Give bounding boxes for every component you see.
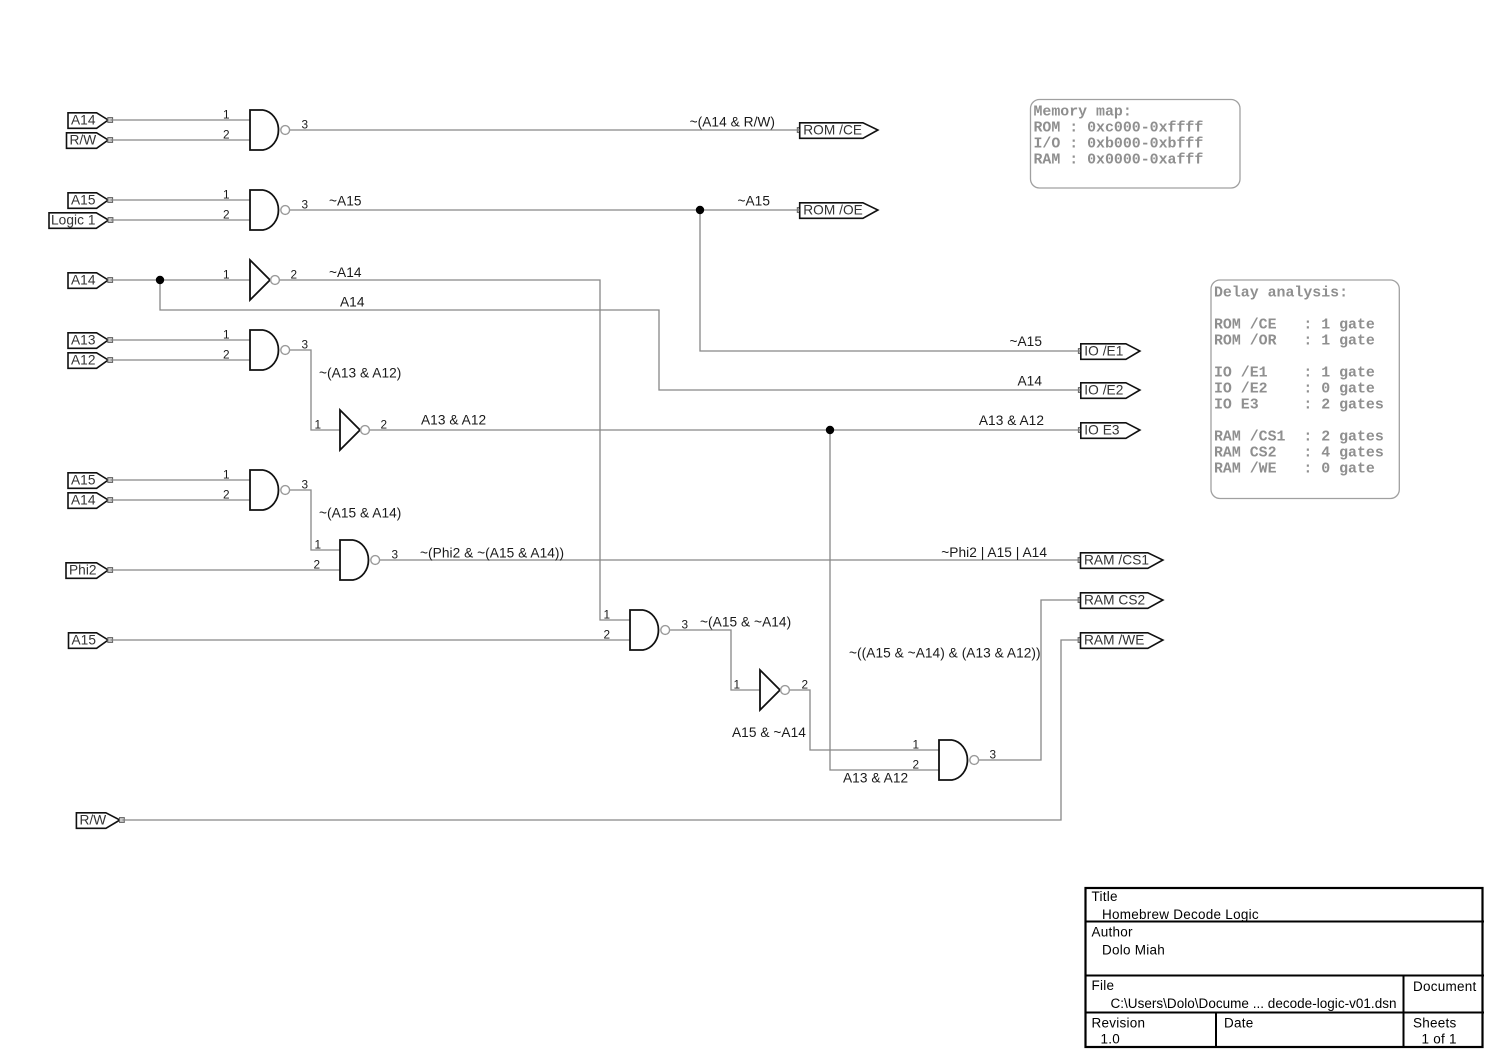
note box memory map: [1031, 100, 1241, 189]
input port A14 (inverter row): [68, 273, 113, 289]
svg-text:RAM : 0x0000-0xafff: RAM : 0x0000-0xafff: [1034, 153, 1204, 169]
svg-text:Author: Author: [1092, 925, 1134, 940]
svg-text:2: 2: [223, 128, 230, 142]
svg-text:A15 & ~A14: A15 & ~A14: [732, 725, 806, 740]
svg-text:RAM /CS1: RAM /CS1: [1084, 553, 1149, 568]
wire A14 to U6 pin 2: [111, 499, 250, 501]
svg-text:RAM /WE: RAM /WE: [1084, 633, 1144, 648]
svg-text:IO /E2 : 0 gate: IO /E2 : 0 gate: [1214, 382, 1375, 398]
svg-text:~(Phi2 & ~(A15 & A14)): ~(Phi2 & ~(A15 & A14)): [420, 546, 564, 561]
svg-text:1: 1: [223, 328, 230, 342]
svg-text:~(A15 & A14): ~(A15 & A14): [319, 506, 401, 521]
svg-text:2: 2: [913, 758, 920, 772]
node junction A13 & A12: [826, 426, 834, 434]
svg-text:1: 1: [913, 738, 920, 752]
svg-text:Document: Document: [1413, 979, 1477, 994]
svg-text:2: 2: [223, 348, 230, 362]
svg-text:R/W: R/W: [70, 133, 97, 148]
svg-text:~A15: ~A15: [1009, 334, 1042, 349]
svg-text:2: 2: [604, 628, 611, 642]
svg-text:1: 1: [223, 188, 230, 202]
svg-text:3: 3: [302, 198, 309, 212]
svg-text:RAM /CS1 : 2 gates: RAM /CS1 : 2 gates: [1214, 430, 1384, 446]
svg-text:~(A13 & A12): ~(A13 & A12): [319, 366, 401, 381]
inverter U5: [340, 410, 369, 450]
svg-text:A13 & A12: A13 & A12: [979, 413, 1044, 428]
svg-text:2: 2: [314, 558, 321, 572]
svg-text:1: 1: [223, 468, 230, 482]
svg-text:1: 1: [734, 678, 741, 692]
wire U8 pin 3 to U9 input (net ~(A15 & ~A14)): [670, 630, 760, 690]
nand gate U7: [340, 540, 380, 580]
wire A15 to U6 pin 1: [111, 479, 250, 481]
svg-text:Dolo Miah: Dolo Miah: [1102, 943, 1165, 958]
input port A15 (A15&A14 row): [68, 473, 113, 489]
svg-text:3: 3: [302, 118, 309, 132]
svg-text:File: File: [1092, 978, 1115, 993]
input port A13: [68, 333, 113, 349]
wire A13 & A12 branch to U10 pin 2: [830, 430, 939, 770]
wire Logic 1 to U2 pin 2: [111, 219, 250, 221]
svg-text:A15: A15: [72, 633, 97, 648]
svg-text:Sheets: Sheets: [1413, 1016, 1457, 1031]
output port RAM /WE: [1078, 633, 1163, 649]
svg-text:2: 2: [223, 208, 230, 222]
node junction ~A15: [696, 206, 704, 214]
svg-text:A13 & A12: A13 & A12: [843, 771, 908, 786]
wire A12 to U4 pin 2: [111, 359, 250, 361]
input port A12: [68, 353, 113, 369]
svg-text:ROM /OE: ROM /OE: [803, 203, 863, 218]
wire U5 output A13 & A12 to IO E3: [369, 429, 1080, 431]
note box delay analysis: [1211, 280, 1399, 499]
output port IO E3: [1078, 423, 1140, 439]
svg-text:R/W: R/W: [80, 813, 107, 828]
svg-text:A14: A14: [1017, 374, 1042, 389]
svg-text:2: 2: [802, 678, 809, 692]
svg-text:Revision: Revision: [1092, 1016, 1146, 1031]
svg-text:1: 1: [315, 418, 322, 432]
wire A13 to U4 pin 1: [111, 339, 250, 341]
svg-text:Delay analysis:: Delay analysis:: [1214, 286, 1348, 302]
svg-text:Logic 1: Logic 1: [51, 213, 96, 228]
svg-text:3: 3: [302, 338, 309, 352]
title block: [1085, 888, 1485, 1047]
wire U4 pin 3 to U5 input (net ~(A13 & A12)): [290, 350, 340, 430]
output port RAM /CS1: [1078, 553, 1163, 569]
input port Logic 1: [49, 213, 113, 229]
svg-text:Date: Date: [1224, 1016, 1254, 1031]
svg-text:IO /E1: IO /E1: [1084, 344, 1123, 359]
svg-text:A15: A15: [71, 473, 96, 488]
input port A15: [68, 193, 113, 209]
output port RAM CS2: [1078, 593, 1163, 609]
wire U9 output A15 & ~A14 to U10 pin 1: [790, 690, 939, 750]
svg-text:3: 3: [682, 618, 689, 632]
svg-text:A15: A15: [71, 193, 96, 208]
wire U3 output ~A14 to U8 pin 1: [280, 280, 630, 620]
svg-text:IO E3: IO E3: [1084, 423, 1120, 438]
svg-text:Phi2: Phi2: [69, 563, 97, 578]
output port ROM /CE: [797, 123, 878, 139]
nand gate U1: [250, 110, 290, 150]
svg-text:A14: A14: [340, 295, 365, 310]
svg-text:~(A14 & R/W): ~(A14 & R/W): [690, 115, 775, 130]
svg-text:A14: A14: [71, 493, 96, 508]
svg-text:IO E3 : 2 gates: IO E3 : 2 gates: [1214, 398, 1384, 414]
svg-text:RAM /WE : 0 gate: RAM /WE : 0 gate: [1214, 462, 1375, 478]
inverter U9: [760, 670, 789, 710]
svg-text:2: 2: [291, 268, 298, 282]
svg-text:2: 2: [223, 488, 230, 502]
wire Phi2 to U7 pin 2: [111, 569, 340, 571]
nand gate U8: [630, 610, 670, 650]
input port R/W (bottom): [76, 813, 124, 829]
wire A15 to U2 pin 1: [111, 199, 250, 201]
wire U10 pin 3 to RAM CS2: [979, 600, 1080, 760]
svg-text:~(A15 & ~A14): ~(A15 & ~A14): [700, 615, 791, 630]
wire U2 pin 3 to ROM /OE (net ~A15): [290, 209, 800, 211]
nand gate U2: [250, 190, 290, 230]
input port A14 (net A14/R/W row): [68, 113, 113, 129]
svg-text:~A14: ~A14: [329, 265, 362, 280]
inverter U3: [250, 260, 279, 300]
node junction A14: [156, 276, 164, 284]
nand gate U6: [250, 470, 290, 510]
wire R/W to U1 pin 2: [111, 139, 250, 141]
svg-text:1: 1: [223, 108, 230, 122]
svg-text:ROM /CE : 1 gate: ROM /CE : 1 gate: [1214, 318, 1375, 334]
wire U1 pin 3 to ROM /CE: [290, 129, 800, 131]
svg-text:3: 3: [392, 548, 399, 562]
svg-text:ROM : 0xc000-0xffff: ROM : 0xc000-0xffff: [1034, 121, 1204, 137]
svg-text:ROM /CE: ROM /CE: [803, 123, 862, 138]
nand gate U10: [939, 740, 979, 780]
input port Phi2: [66, 563, 113, 579]
wire A14 branch to IO /E2: [160, 280, 1080, 390]
svg-text:1: 1: [223, 268, 230, 282]
svg-text:A14: A14: [71, 113, 96, 128]
svg-text:RAM CS2: RAM CS2: [1084, 593, 1145, 608]
svg-text:~A15: ~A15: [329, 194, 362, 209]
svg-text:I/O : 0xb000-0xbfff: I/O : 0xb000-0xbfff: [1034, 137, 1204, 153]
svg-text:1.0: 1.0: [1101, 1032, 1121, 1047]
svg-text:2: 2: [381, 418, 388, 432]
input port A15 (bottom row): [69, 633, 113, 649]
svg-text:Homebrew Decode Logic: Homebrew Decode Logic: [1102, 907, 1259, 922]
output port IO /E1: [1078, 344, 1140, 360]
wire A15 to U8 pin 2: [111, 639, 630, 641]
svg-text:A14: A14: [71, 273, 96, 288]
svg-text:3: 3: [990, 748, 997, 762]
wire U7 pin 3 to RAM /CS1: [380, 559, 1080, 561]
svg-text:1 of 1: 1 of 1: [1422, 1032, 1457, 1047]
svg-text:ROM /OR : 1 gate: ROM /OR : 1 gate: [1214, 334, 1375, 350]
wire A14 to U3 input: [111, 279, 250, 281]
wire R/W to RAM /WE: [123, 640, 1081, 820]
svg-text:~((A15 & ~A14) & (A13 & A12)): ~((A15 & ~A14) & (A13 & A12)): [849, 646, 1041, 661]
svg-text:1: 1: [604, 608, 611, 622]
svg-text:~Phi2 | A15 | A14: ~Phi2 | A15 | A14: [941, 545, 1047, 560]
nand gate U4: [250, 330, 290, 370]
output port ROM /OE: [797, 203, 878, 219]
svg-text:A13: A13: [71, 333, 96, 348]
svg-text:A13 & A12: A13 & A12: [421, 413, 486, 428]
wire A14 to U1 pin 1: [111, 119, 250, 121]
svg-text:Title: Title: [1092, 889, 1118, 904]
svg-text:IO /E1 : 1 gate: IO /E1 : 1 gate: [1214, 366, 1375, 382]
input port R/W: [67, 133, 113, 149]
svg-text:1: 1: [315, 538, 322, 552]
wire U6 pin 3 to U7 pin 1 (net ~(A15 & A14)): [290, 490, 340, 550]
svg-text:Memory map:: Memory map:: [1034, 105, 1132, 121]
svg-text:A12: A12: [71, 353, 96, 368]
svg-text:~A15: ~A15: [737, 194, 770, 209]
wire ~A15 branch to IO /E1: [700, 210, 1080, 351]
output port IO /E2: [1078, 383, 1140, 399]
svg-text:3: 3: [302, 478, 309, 492]
svg-text:RAM CS2 : 4 gates: RAM CS2 : 4 gates: [1214, 446, 1384, 462]
svg-text:C:\Users\Dolo\Docume ... decod: C:\Users\Dolo\Docume ... decode-logic-v0…: [1111, 996, 1397, 1011]
input port A14 (A15&A14 row): [68, 493, 113, 509]
svg-text:IO /E2: IO /E2: [1084, 383, 1123, 398]
